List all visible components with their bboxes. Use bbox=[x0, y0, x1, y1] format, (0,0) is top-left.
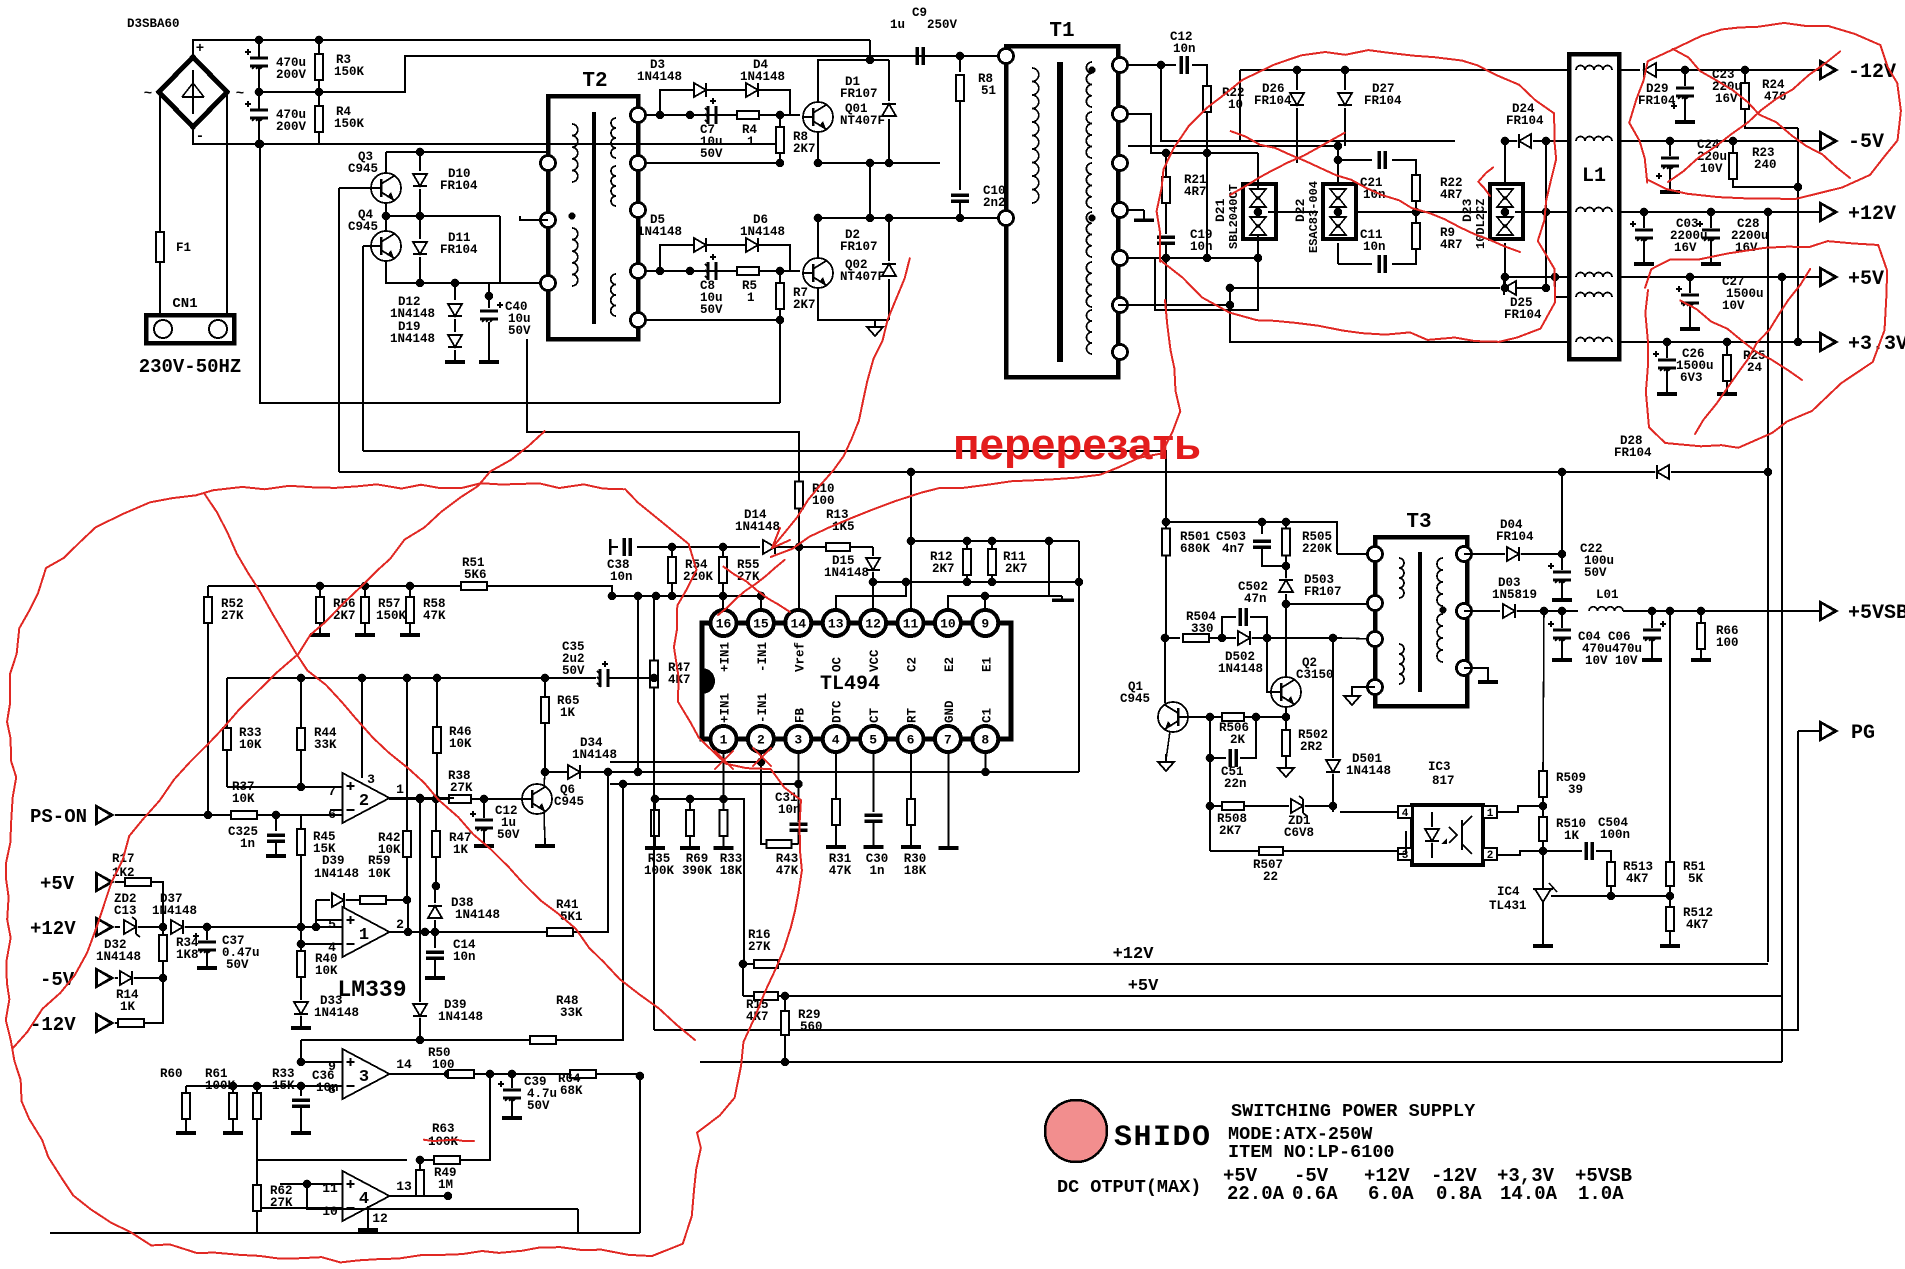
wire sense node row bbox=[207, 926, 343, 928]
svg-text:6.0A: 6.0A bbox=[1368, 1183, 1414, 1205]
svg-text:FR104: FR104 bbox=[1506, 114, 1544, 128]
capacitor C36 10n bbox=[300, 1086, 302, 1096]
wire D22 top bbox=[1337, 146, 1339, 184]
resistor R4 150K bbox=[318, 92, 320, 106]
svg-text:11: 11 bbox=[903, 617, 919, 632]
resistor R501 680K bbox=[1165, 522, 1167, 528]
capacitor C12 10n bbox=[1128, 64, 1176, 66]
svg-text:390K: 390K bbox=[682, 864, 713, 878]
svg-text:-: - bbox=[196, 129, 204, 145]
capacitor C325 1n bbox=[272, 811, 281, 820]
pin 6 TL494 bbox=[898, 726, 924, 752]
svg-text:15K: 15K bbox=[272, 1079, 295, 1093]
pin T3 right2 bbox=[1457, 604, 1472, 619]
svg-text:FB: FB bbox=[793, 707, 807, 723]
diode D502 1N4148 bbox=[1238, 631, 1250, 645]
svg-text:D21: D21 bbox=[1213, 198, 1228, 222]
resistor R37 10K bbox=[208, 814, 231, 816]
bridge rectifier D3SBA60 bbox=[159, 57, 227, 127]
resistor R4b 1 bbox=[737, 111, 759, 119]
wire VCC row bbox=[873, 581, 1079, 583]
svg-text:12: 12 bbox=[865, 617, 881, 632]
svg-text:10n: 10n bbox=[778, 803, 801, 817]
svg-text:F1: F1 bbox=[176, 241, 191, 255]
diode D37 1N4148 bbox=[171, 920, 183, 934]
wire op2 plus feed bbox=[227, 786, 343, 788]
svg-text:D39: D39 bbox=[322, 854, 345, 868]
resistor R57 150K bbox=[364, 586, 366, 596]
wire R23 R24 drop bbox=[1797, 128, 1799, 342]
red annotation cut fork b bbox=[772, 528, 780, 548]
wire bottom rail B bbox=[50, 1232, 640, 1234]
resistor R55 27K bbox=[722, 547, 724, 556]
resistor R23 240 bbox=[1729, 137, 1738, 146]
output arrow +5V bbox=[1819, 266, 1839, 288]
wire pin6 stub bbox=[910, 752, 912, 799]
svg-text:3: 3 bbox=[1402, 850, 1409, 862]
wire Q01 emitter bbox=[818, 132, 940, 163]
svg-text:-5V: -5V bbox=[1848, 131, 1884, 154]
svg-text:10K: 10K bbox=[449, 737, 472, 751]
red annotation big loop around control section bbox=[6, 483, 802, 1262]
svg-text:1N4148: 1N4148 bbox=[1346, 764, 1391, 778]
wire op3 plus bbox=[301, 1061, 343, 1063]
diode D26 FR104 bbox=[1293, 66, 1302, 75]
resistor R47 4K7 bbox=[653, 596, 655, 660]
svg-text:33K: 33K bbox=[560, 1006, 583, 1020]
svg-text:2: 2 bbox=[1487, 850, 1494, 862]
wire bridge AC left bbox=[159, 92, 161, 232]
capacitor C9 1u 250V bbox=[915, 47, 919, 65]
wire D21 out bbox=[1268, 211, 1318, 213]
svg-text:D22: D22 bbox=[1293, 198, 1308, 222]
transistor Q6 C945 bbox=[522, 784, 552, 814]
resistor R61 100K bbox=[232, 1086, 234, 1092]
svg-text:RT: RT bbox=[906, 707, 920, 723]
svg-text:FR104: FR104 bbox=[1496, 530, 1534, 544]
svg-text:R59: R59 bbox=[368, 854, 391, 868]
resistor R17 1K2 bbox=[125, 878, 151, 886]
ground tap210 bbox=[1128, 209, 1144, 211]
svg-text:FR104: FR104 bbox=[440, 243, 478, 257]
wire mid row bbox=[386, 215, 500, 217]
pin 1 TL494 bbox=[711, 726, 737, 752]
svg-text:2K7: 2K7 bbox=[932, 562, 955, 576]
capacitor C27 1500u 10V bbox=[1686, 273, 1695, 282]
diode D503 FR107 bbox=[1279, 580, 1293, 592]
resistor R40 10K bbox=[300, 927, 302, 950]
wire row762 bbox=[610, 761, 761, 763]
svg-text:1N4148: 1N4148 bbox=[637, 70, 682, 84]
svg-text:4R7: 4R7 bbox=[1440, 238, 1463, 252]
svg-text:22: 22 bbox=[1263, 870, 1278, 884]
svg-text:CT: CT bbox=[868, 707, 882, 723]
red annotation X rectifier a bbox=[1231, 131, 1520, 252]
resistor R3 150K bbox=[318, 40, 320, 54]
wire +12V rail right bbox=[1619, 211, 1819, 213]
svg-text:330: 330 bbox=[1191, 622, 1214, 636]
red annotation curl near D24 bbox=[1478, 167, 1493, 196]
capacitor C19 10n bbox=[1157, 235, 1175, 239]
svg-text:1N4148: 1N4148 bbox=[438, 1010, 483, 1024]
svg-text:-12V: -12V bbox=[1848, 61, 1896, 84]
node R57 top bbox=[361, 582, 370, 591]
pin T3 left2 bbox=[1368, 596, 1383, 611]
resistor R12 2K7 bbox=[963, 578, 972, 587]
capacitor C40 10u 50V bbox=[485, 292, 494, 301]
red annotation X bottom a bbox=[1680, 301, 1802, 380]
diode D33 1N4148 bbox=[294, 1002, 308, 1014]
svg-text:PS-ON: PS-ON bbox=[30, 806, 87, 828]
node Q3 Q4 mid bbox=[382, 212, 391, 221]
pin T2 right 3 bbox=[631, 203, 646, 218]
wire pin12 stub bbox=[872, 582, 874, 610]
red annotation small x near pin1 bbox=[715, 751, 733, 769]
resistor R64 68K bbox=[512, 1073, 570, 1075]
wire D12 top bbox=[451, 279, 460, 288]
svg-text:10V: 10V bbox=[1722, 299, 1745, 313]
svg-text:7: 7 bbox=[944, 733, 952, 748]
wire T2 left pin2 bbox=[520, 216, 548, 220]
wire E1 E2 tie bbox=[948, 541, 1049, 610]
resistor R47b 1K bbox=[435, 799, 437, 831]
wire C9 right bbox=[924, 55, 1006, 57]
svg-text:1: 1 bbox=[747, 291, 755, 305]
capacitor C22 100u 50V bbox=[1558, 550, 1567, 559]
svg-text:10K: 10K bbox=[232, 792, 255, 806]
svg-text:10K: 10K bbox=[315, 964, 338, 978]
red annotation diagonal A bbox=[13, 431, 545, 1048]
wire R507 to IC3 pin3 bbox=[1405, 831, 1407, 854]
wire T1 tap258 bbox=[1128, 257, 1258, 259]
resistor R50 100 bbox=[448, 1070, 474, 1078]
wire pin1 stub bbox=[723, 752, 725, 799]
wire T3 pin3 feed bbox=[1340, 638, 1375, 639]
svg-text:+5V: +5V bbox=[40, 873, 75, 895]
svg-text:FR107: FR107 bbox=[840, 87, 878, 101]
svg-text:14: 14 bbox=[396, 1057, 412, 1072]
wire base row 2 bbox=[646, 270, 800, 272]
wire Q4 emitter row bbox=[386, 262, 548, 283]
red annotation X top a bbox=[1673, 49, 1850, 178]
wire T3 pin1 feed bbox=[1337, 553, 1375, 555]
output arrow +5VSB bbox=[1819, 600, 1839, 622]
diode D39 1N4148 a bbox=[316, 899, 330, 901]
svg-text:1N4148: 1N4148 bbox=[637, 225, 682, 239]
resistor R58 47K bbox=[409, 586, 411, 596]
pin T3 left1 bbox=[1368, 547, 1383, 562]
svg-text:50V: 50V bbox=[497, 828, 520, 842]
node top bus C5 bbox=[255, 36, 264, 45]
svg-text:FR104: FR104 bbox=[1504, 308, 1542, 322]
svg-text:TL494: TL494 bbox=[820, 673, 880, 696]
capacitor C504 100n bbox=[1543, 850, 1582, 852]
zener ZD2 C13 bbox=[124, 917, 140, 937]
wire ground bus bottom bbox=[700, 1061, 1782, 1063]
svg-text:FR104: FR104 bbox=[1638, 94, 1676, 108]
ground E1 E2 bbox=[1061, 596, 1063, 600]
svg-text:C945: C945 bbox=[348, 220, 378, 234]
svg-text:16V: 16V bbox=[1735, 241, 1758, 255]
node R55 top bbox=[719, 543, 728, 552]
pin T2 right 4 bbox=[631, 264, 646, 279]
capacitor C11 10n bbox=[1337, 243, 1339, 264]
svg-text:R63: R63 bbox=[432, 1122, 455, 1136]
svg-text:CN1: CN1 bbox=[172, 296, 197, 312]
svg-text:100K: 100K bbox=[644, 864, 675, 878]
resistor R69 390K bbox=[689, 799, 691, 811]
svg-text:18K: 18K bbox=[720, 864, 743, 878]
resistor R504 330 bbox=[1165, 637, 1180, 639]
wire -12V rail left bbox=[1240, 69, 1569, 71]
optocoupler IC3 817 bbox=[1412, 805, 1483, 865]
pin T1 left 1 bbox=[999, 49, 1014, 64]
inductor L1 bbox=[1569, 54, 1619, 359]
ground Q02 bbox=[874, 319, 876, 327]
svg-text:~: ~ bbox=[236, 86, 244, 102]
resistor R510 1K bbox=[1539, 817, 1547, 841]
rectifier D21 SBL2040CT bbox=[1243, 184, 1276, 239]
resistor R513 4K7 bbox=[1607, 862, 1615, 886]
svg-text:10n: 10n bbox=[610, 570, 633, 584]
svg-text:47K: 47K bbox=[776, 864, 799, 878]
resistor R52 27K bbox=[207, 586, 209, 596]
svg-text:1K8: 1K8 bbox=[176, 948, 199, 962]
svg-text:16V: 16V bbox=[1715, 92, 1738, 106]
svg-text:E2: E2 bbox=[943, 657, 957, 672]
svg-text:перерезать: перерезать bbox=[953, 420, 1201, 469]
svg-text:1N4148: 1N4148 bbox=[1218, 662, 1263, 676]
transformer T2 bbox=[548, 96, 638, 339]
capacitor C502 47n bbox=[1222, 617, 1236, 638]
svg-text:4K7: 4K7 bbox=[1626, 872, 1649, 886]
node op4 out bbox=[444, 1192, 453, 1201]
pin 12 TL494 bbox=[860, 610, 886, 636]
pin 2 TL494 bbox=[748, 726, 774, 752]
pin T3 right1 bbox=[1457, 547, 1472, 562]
wire +3.3V rail left bbox=[1230, 288, 1569, 342]
svg-text:12: 12 bbox=[372, 1211, 388, 1226]
wire R38 left bbox=[389, 798, 449, 800]
svg-text:24: 24 bbox=[1747, 361, 1763, 375]
pin T2 right 2 bbox=[631, 156, 646, 171]
wire minus drop to y403 bbox=[260, 144, 780, 403]
svg-text:Vref: Vref bbox=[793, 642, 807, 672]
wire -5V rail left bbox=[1240, 140, 1455, 142]
pin T3 left3 bbox=[1368, 632, 1383, 647]
svg-text:22.0A: 22.0A bbox=[1227, 1183, 1285, 1205]
svg-text:1: 1 bbox=[359, 926, 369, 945]
resistor R41 5K1 bbox=[547, 928, 573, 936]
svg-text:NT407F: NT407F bbox=[840, 270, 885, 284]
diode D38 1N4148 bbox=[434, 886, 436, 903]
wire pin8 stub bbox=[985, 752, 987, 772]
svg-text:10n: 10n bbox=[453, 950, 476, 964]
svg-text:D23: D23 bbox=[1460, 198, 1475, 222]
svg-text:1N4148: 1N4148 bbox=[314, 867, 359, 881]
resistor R33 18K bbox=[723, 799, 725, 811]
svg-text:10DL2CZ: 10DL2CZ bbox=[1474, 199, 1488, 249]
resistor R8 51 bbox=[959, 56, 961, 72]
wire Q1 base row bbox=[1188, 716, 1284, 718]
resistor R33b 15K bbox=[256, 1086, 258, 1092]
svg-text:100: 100 bbox=[812, 494, 835, 508]
pin T3 left4 bbox=[1368, 680, 1383, 695]
wire x638 drop2 bbox=[637, 596, 639, 772]
svg-text:C945: C945 bbox=[348, 162, 378, 176]
capacitor C03 2200u 16V bbox=[1640, 208, 1649, 217]
pin 4 TL494 bbox=[823, 726, 849, 752]
pin T3 right3 bbox=[1457, 661, 1472, 676]
wire bottom rail A bbox=[307, 1184, 578, 1209]
diode D29 FR104 bbox=[1619, 69, 1640, 71]
node mid bus C5 bbox=[255, 88, 264, 97]
svg-text:1: 1 bbox=[747, 135, 755, 149]
resistor R509 39 bbox=[1543, 611, 1544, 771]
svg-text:OC: OC bbox=[831, 656, 845, 672]
wire D23 out bbox=[1515, 211, 1569, 213]
svg-text:C2: C2 bbox=[906, 657, 920, 672]
wire T2 bottom to R10 bbox=[527, 339, 799, 481]
wire Q2 emitter bbox=[1285, 707, 1287, 730]
svg-text:10V: 10V bbox=[1585, 654, 1608, 668]
transformer T1 bbox=[1006, 46, 1118, 377]
diode D04 FR104 bbox=[1464, 553, 1505, 555]
svg-text:-IN1: -IN1 bbox=[756, 642, 770, 672]
node R54 top bbox=[668, 543, 677, 552]
svg-text:100K: 100K bbox=[205, 1079, 236, 1093]
wire Vref row bbox=[637, 546, 760, 548]
svg-text:+: + bbox=[196, 41, 204, 57]
svg-text:47K: 47K bbox=[829, 864, 852, 878]
svg-text:240: 240 bbox=[1754, 158, 1777, 172]
svg-text:2K: 2K bbox=[1230, 733, 1246, 747]
wire bridge plus to top bus bbox=[193, 40, 870, 57]
wire pin3 stub bbox=[798, 752, 800, 822]
svg-text:250V: 250V bbox=[927, 18, 958, 32]
wire R15 left drop bbox=[742, 964, 744, 996]
svg-text:IC3: IC3 bbox=[1428, 760, 1451, 774]
svg-text:10V: 10V bbox=[1700, 162, 1723, 176]
diode D19 1N4148 bbox=[454, 330, 456, 332]
svg-text:18K: 18K bbox=[904, 864, 927, 878]
svg-text:VCC: VCC bbox=[868, 649, 882, 672]
transistor Q3 C945 bbox=[371, 173, 401, 203]
resistor R48 33K bbox=[301, 1039, 530, 1041]
svg-text:+5VSB: +5VSB bbox=[1848, 602, 1905, 625]
svg-text:FR104: FR104 bbox=[1254, 94, 1292, 108]
wire Q1 collector bbox=[1164, 638, 1166, 703]
svg-text:50V: 50V bbox=[700, 303, 723, 317]
wire +5V rail right bbox=[1619, 276, 1819, 278]
svg-text:NT407F: NT407F bbox=[840, 114, 885, 128]
wire base row 1 bbox=[646, 114, 800, 116]
svg-text:SBL2040CT: SBL2040CT bbox=[1227, 184, 1241, 249]
wire R7 bottom drop bbox=[779, 320, 781, 403]
wire D503 to T3 bbox=[1286, 603, 1375, 605]
svg-text:1N4148: 1N4148 bbox=[735, 520, 780, 534]
capacitor C5 470u 200V bbox=[258, 40, 260, 58]
red annotation small x near pin2 bbox=[753, 748, 771, 766]
svg-text:2K7: 2K7 bbox=[793, 142, 816, 156]
svg-text:220K: 220K bbox=[683, 570, 714, 584]
diode D501 1N4148 bbox=[1332, 638, 1334, 758]
svg-text:27K: 27K bbox=[748, 940, 771, 954]
resistor R506 2K bbox=[1222, 713, 1244, 721]
wire pin7 gnd bbox=[948, 752, 950, 846]
pin T2 left 2 bbox=[541, 213, 556, 228]
diode bypass row2 bbox=[660, 245, 693, 271]
zener ZD1 C6V8 bbox=[1291, 796, 1307, 816]
wire D21 C19 gnd bbox=[1155, 243, 1258, 310]
wire mid bus bbox=[259, 56, 1006, 92]
svg-text:680K: 680K bbox=[1180, 542, 1211, 556]
svg-text:9: 9 bbox=[981, 617, 989, 632]
svg-text:T3: T3 bbox=[1406, 511, 1431, 534]
op-amp IC TL494 body bbox=[702, 623, 1011, 739]
resistor R22b 4R7 bbox=[1412, 175, 1420, 201]
node R58 top bbox=[406, 582, 415, 591]
svg-text:1K: 1K bbox=[120, 1000, 136, 1014]
svg-text:2: 2 bbox=[396, 917, 404, 932]
resistor R62 27K bbox=[256, 1160, 258, 1185]
resistor R45 15K bbox=[300, 815, 302, 829]
wire pin16 stub bbox=[722, 596, 724, 610]
svg-text:ITEM NO:LP-6100: ITEM NO:LP-6100 bbox=[1228, 1142, 1395, 1163]
svg-text:1N4148: 1N4148 bbox=[96, 950, 141, 964]
pin 9 TL494 bbox=[972, 610, 998, 636]
svg-text:39: 39 bbox=[1568, 783, 1583, 797]
svg-text:50V: 50V bbox=[527, 1099, 550, 1113]
svg-text:10: 10 bbox=[940, 617, 956, 632]
svg-text:DTC: DTC bbox=[831, 700, 845, 723]
pin T2 left 3 bbox=[541, 276, 556, 291]
wire op1 plus bbox=[312, 923, 321, 932]
red annotation X rectifier b bbox=[1230, 133, 1345, 195]
diode D24 FR104 bbox=[1509, 140, 1517, 142]
svg-text:10n: 10n bbox=[1363, 240, 1386, 254]
svg-text:C1: C1 bbox=[980, 708, 994, 723]
capacitor C26 1500u 6V3 bbox=[1663, 338, 1672, 347]
svg-text:1: 1 bbox=[1487, 808, 1494, 820]
svg-text:R60: R60 bbox=[160, 1067, 183, 1081]
diode D39 1N4148 b bbox=[419, 799, 421, 1002]
svg-text:GND: GND bbox=[943, 700, 957, 723]
svg-text:ESAC83-004: ESAC83-004 bbox=[1307, 181, 1321, 253]
wire C35 left bbox=[545, 677, 560, 679]
resistor R9 4R7 bbox=[1412, 223, 1420, 249]
wire pin2 stub bbox=[760, 752, 762, 762]
wire +5V second tap bbox=[1555, 276, 1569, 278]
svg-text:50V: 50V bbox=[508, 324, 531, 338]
node D15 bottom bbox=[869, 578, 878, 587]
wire Q6 collector bbox=[544, 772, 545, 786]
svg-text:1N4148: 1N4148 bbox=[740, 225, 785, 239]
svg-text:FR107: FR107 bbox=[1304, 585, 1342, 599]
diode D1 bbox=[882, 104, 896, 116]
wire -5V rail right bbox=[1619, 140, 1819, 142]
svg-text:C13: C13 bbox=[114, 904, 137, 918]
svg-text:10n: 10n bbox=[1190, 240, 1213, 254]
svg-text:0.6A: 0.6A bbox=[1292, 1183, 1338, 1205]
diode bypass row1 bbox=[660, 90, 693, 115]
svg-text:4n7: 4n7 bbox=[1222, 542, 1245, 556]
wire C2 row bbox=[910, 472, 912, 610]
pin T2 left 1 bbox=[541, 156, 556, 171]
svg-text:PG: PG bbox=[1851, 722, 1875, 745]
svg-text:10V: 10V bbox=[1615, 654, 1638, 668]
svg-text:2: 2 bbox=[757, 733, 765, 748]
